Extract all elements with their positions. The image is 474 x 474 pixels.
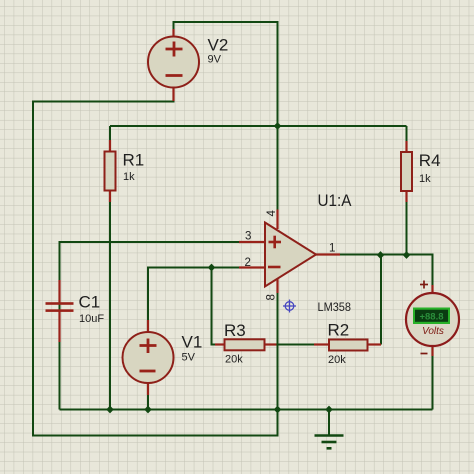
svg-text:3: 3 — [245, 231, 251, 243]
svg-text:R3: R3 — [224, 321, 246, 340]
svg-text:R4: R4 — [419, 151, 441, 170]
svg-text:5V: 5V — [182, 351, 196, 363]
svg-text:1k: 1k — [123, 171, 135, 183]
svg-text:V1: V1 — [182, 332, 203, 351]
svg-text:10uF: 10uF — [79, 313, 104, 325]
svg-text:V2: V2 — [208, 36, 229, 55]
svg-text:1k: 1k — [419, 173, 431, 185]
svg-text:R2: R2 — [328, 321, 350, 340]
svg-text:R1: R1 — [123, 150, 145, 169]
svg-text:2: 2 — [245, 257, 251, 269]
svg-text:+88.8: +88.8 — [419, 312, 443, 323]
svg-text:U1:A: U1:A — [318, 191, 353, 210]
svg-text:LM358: LM358 — [318, 302, 352, 314]
svg-text:C1: C1 — [79, 293, 101, 312]
svg-text:20k: 20k — [225, 354, 243, 366]
svg-text:20k: 20k — [328, 354, 346, 366]
svg-text:4: 4 — [266, 210, 278, 217]
svg-text:1: 1 — [329, 243, 335, 255]
svg-text:8: 8 — [266, 294, 278, 300]
svg-text:Volts: Volts — [422, 326, 444, 337]
svg-text:9V: 9V — [208, 54, 222, 66]
